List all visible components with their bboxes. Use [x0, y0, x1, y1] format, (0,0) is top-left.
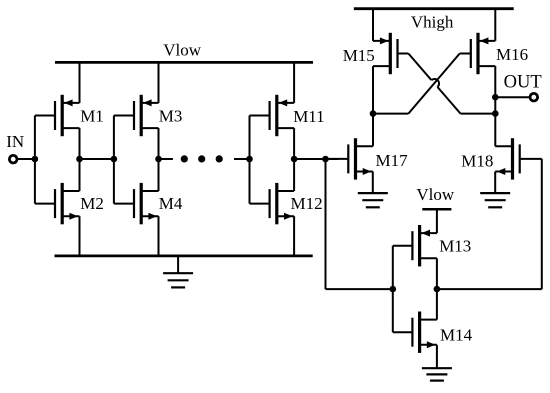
svg-text:M1: M1	[80, 106, 104, 125]
svg-text:M17: M17	[376, 151, 409, 170]
svg-text:M15: M15	[343, 46, 375, 65]
svg-text:M16: M16	[496, 45, 528, 64]
svg-text:M12: M12	[291, 194, 323, 213]
svg-text:M11: M11	[293, 107, 325, 126]
svg-text:Vhigh: Vhigh	[411, 13, 454, 32]
svg-text:M14: M14	[440, 326, 473, 345]
svg-text:M2: M2	[80, 194, 104, 213]
svg-text:M13: M13	[439, 237, 471, 256]
svg-text:IN: IN	[6, 132, 24, 151]
svg-text:Vlow: Vlow	[416, 185, 455, 204]
svg-text:M4: M4	[159, 194, 183, 213]
svg-text:OUT: OUT	[504, 73, 542, 93]
svg-text:M18: M18	[461, 152, 493, 171]
svg-text:Vlow: Vlow	[163, 40, 202, 59]
svg-text:M3: M3	[159, 106, 183, 125]
